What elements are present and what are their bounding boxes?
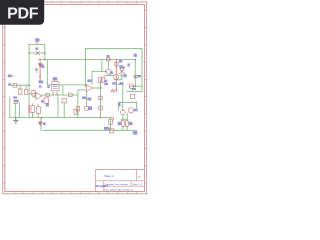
svg-text:Date: 2023-05-18 Drawn By: x: Date: 2023-05-18 Drawn By: xxx	[105, 188, 134, 191]
svg-text:EasyEDA: EasyEDA	[96, 184, 108, 188]
svg-text:PDF: PDF	[7, 6, 39, 23]
svg-text:Sheet: 1/1: Sheet: 1/1	[133, 183, 143, 186]
svg-text:Company: Your Company: Company: Your Company	[105, 184, 128, 186]
svg-text:Sheet_1: Sheet_1	[104, 175, 114, 178]
